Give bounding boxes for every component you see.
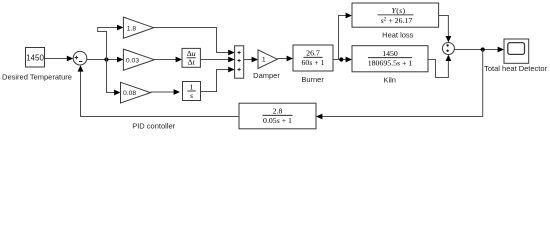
wire: sum2 to Scope (455, 47, 505, 53)
node: junction after sum1 (104, 57, 108, 61)
sum block (3 inputs) (235, 46, 244, 78)
scope Total heat Detector (504, 39, 529, 63)
svg-text:60s + 1: 60s + 1 (301, 58, 324, 67)
svg-text:Δt: Δt (188, 58, 196, 67)
node: junction after sum2 (481, 47, 485, 51)
wire: 1450 to sum1 (45, 56, 74, 62)
svg-text:Damper: Damper (253, 71, 280, 80)
svg-text:1450: 1450 (382, 49, 398, 58)
wire: junction down to 0.08 gain (107, 60, 121, 96)
wire: integrator output to sum port3 (201, 67, 235, 92)
sum junction S1 (73, 51, 87, 65)
svg-text:0.08: 0.08 (123, 90, 136, 97)
wire: junction up to 1.8 gain (98, 25, 124, 60)
wire: sum rect to Damper (244, 57, 258, 63)
derivative block du/dt (182, 48, 200, 67)
wire: feedback from junction down to 2.8 block (316, 50, 483, 120)
transfer fcn feedback 2.8 (239, 103, 316, 129)
svg-text:PID contoller: PID contoller (132, 121, 175, 130)
wire: 0.03 output to derivative (154, 57, 182, 63)
transfer fcn Kiln (352, 46, 428, 72)
svg-text:180695.5s + 1: 180695.5s + 1 (368, 59, 413, 68)
wire: derivative output to sum port2 (200, 57, 234, 63)
gain 1.8 (123, 17, 153, 38)
gain Damper (258, 50, 277, 69)
wire: junction up to Heat loss (339, 13, 353, 60)
svg-text:0.05s + 1: 0.05s + 1 (263, 116, 292, 125)
wire: Heat loss output to sum2 top (439, 16, 452, 43)
wire: Kiln output to sum2 bottom (428, 55, 451, 78)
wire: sum1 to junction to 0.03 gain (86, 57, 123, 63)
svg-text:Burner: Burner (301, 75, 324, 84)
transfer fcn Heat loss (352, 3, 439, 27)
svg-text:2.8: 2.8 (273, 107, 283, 116)
gain 0.08 (121, 82, 151, 103)
svg-text:Heat loss: Heat loss (382, 31, 414, 40)
transfer fcn Burner (293, 45, 333, 71)
svg-text:Total heat Detector: Total heat Detector (484, 64, 547, 73)
wire: Damper to Burner (277, 56, 293, 62)
svg-text:s: s (190, 91, 193, 100)
integrator block 1/s (183, 82, 201, 101)
svg-text:Kiln: Kiln (383, 76, 396, 85)
node: junction Burner output (339, 57, 343, 61)
wire: 2.8 block output left and up to sum1 bottom (78, 65, 239, 116)
svg-text:1450: 1450 (26, 53, 44, 62)
gain 0.03 (123, 49, 154, 70)
svg-text:26.7: 26.7 (306, 49, 320, 58)
constant block 1450 (26, 48, 45, 68)
sum junction S2 (442, 43, 454, 55)
wire: 1.8 output to sum port1 (154, 28, 235, 56)
svg-text:1: 1 (262, 57, 266, 64)
svg-text:Y(s): Y(s) (392, 6, 406, 15)
svg-text:Desired Temperature: Desired Temperature (2, 73, 72, 82)
wire: Burner to Kiln (333, 57, 352, 63)
wire: 0.08 output to integrator (151, 89, 181, 95)
svg-text:0.03: 0.03 (126, 57, 139, 64)
svg-text:1.8: 1.8 (127, 25, 137, 32)
svg-text:s2 + 26.17: s2 + 26.17 (381, 16, 413, 25)
